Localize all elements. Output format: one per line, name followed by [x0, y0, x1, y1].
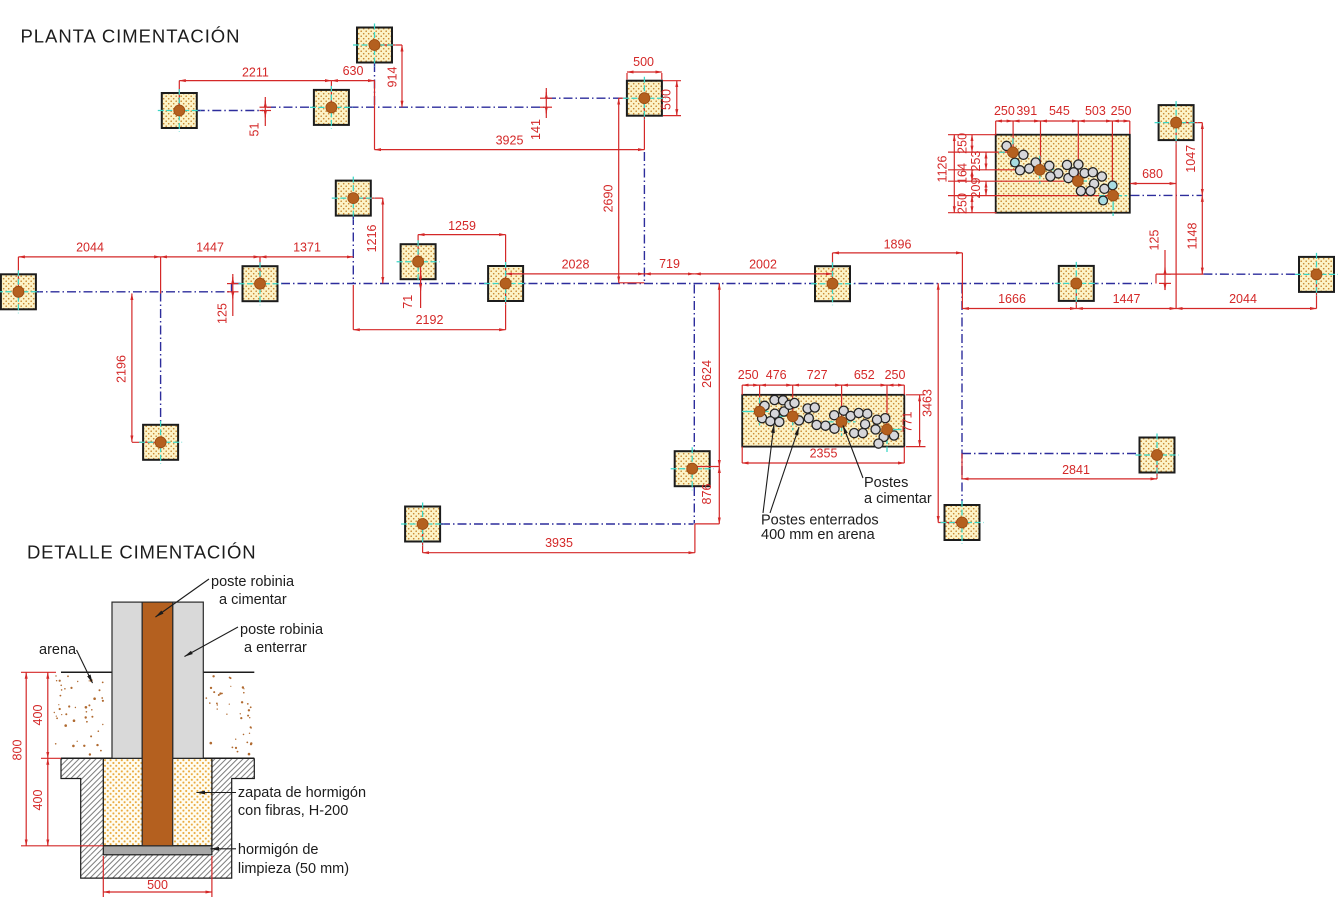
svg-text:250: 250: [955, 133, 969, 154]
svg-text:2211: 2211: [242, 66, 269, 80]
svg-text:1047: 1047: [1184, 145, 1198, 173]
svg-text:1148: 1148: [1185, 223, 1199, 250]
svg-text:3463: 3463: [920, 389, 934, 417]
svg-text:391: 391: [1016, 104, 1037, 118]
svg-text:2192: 2192: [416, 313, 444, 327]
svg-text:400: 400: [31, 705, 45, 726]
svg-text:400 mm en arena: 400 mm en arena: [761, 527, 876, 543]
svg-text:1447: 1447: [196, 240, 224, 254]
svg-text:arena: arena: [39, 642, 77, 658]
svg-text:2355: 2355: [810, 447, 838, 461]
svg-text:Postes: Postes: [864, 475, 908, 491]
svg-text:652: 652: [854, 368, 875, 382]
svg-text:zapata de hormigón: zapata de hormigón: [238, 785, 366, 801]
svg-text:1259: 1259: [448, 219, 476, 233]
svg-text:719: 719: [659, 257, 680, 271]
svg-text:2841: 2841: [1062, 463, 1090, 477]
svg-text:con fibras, H-200: con fibras, H-200: [238, 803, 348, 819]
svg-text:680: 680: [1142, 167, 1163, 181]
svg-text:2690: 2690: [602, 185, 616, 213]
svg-text:500: 500: [660, 89, 674, 110]
svg-text:PLANTA CIMENTACIÓN: PLANTA CIMENTACIÓN: [21, 25, 241, 46]
svg-text:2044: 2044: [76, 240, 104, 254]
svg-text:800: 800: [11, 740, 25, 761]
svg-text:2624: 2624: [700, 360, 714, 388]
svg-text:a cimentar: a cimentar: [864, 491, 932, 507]
svg-text:3925: 3925: [496, 134, 524, 148]
svg-text:250: 250: [1111, 104, 1132, 118]
svg-text:2044: 2044: [1229, 292, 1257, 306]
svg-text:400: 400: [31, 790, 45, 811]
svg-text:503: 503: [1085, 104, 1106, 118]
svg-text:500: 500: [147, 878, 168, 892]
svg-text:727: 727: [807, 368, 828, 382]
svg-text:poste robinia: poste robinia: [240, 622, 324, 638]
svg-text:limpieza (50 mm): limpieza (50 mm): [238, 861, 349, 877]
svg-text:1371: 1371: [293, 240, 321, 254]
svg-text:3935: 3935: [545, 536, 573, 550]
svg-text:253: 253: [969, 151, 983, 172]
svg-text:hormigón de: hormigón de: [238, 842, 319, 858]
svg-text:71: 71: [401, 295, 415, 309]
svg-text:a cimentar: a cimentar: [219, 592, 287, 608]
svg-text:1896: 1896: [884, 237, 912, 251]
svg-text:545: 545: [1049, 104, 1070, 118]
svg-text:2002: 2002: [749, 258, 777, 272]
svg-text:2196: 2196: [114, 355, 128, 383]
svg-text:poste robinia: poste robinia: [211, 574, 295, 590]
svg-text:125: 125: [1147, 230, 1161, 251]
svg-text:630: 630: [343, 64, 364, 78]
svg-text:1216: 1216: [365, 224, 379, 252]
svg-text:476: 476: [766, 368, 787, 382]
svg-text:914: 914: [386, 67, 400, 88]
svg-text:771: 771: [900, 412, 914, 433]
svg-text:250: 250: [885, 368, 906, 382]
svg-text:141: 141: [529, 119, 543, 140]
svg-text:DETALLE CIMENTACIÓN: DETALLE CIMENTACIÓN: [27, 542, 256, 563]
svg-text:125: 125: [215, 303, 229, 324]
svg-text:500: 500: [633, 55, 654, 69]
svg-text:250: 250: [994, 104, 1015, 118]
svg-text:1126: 1126: [935, 156, 949, 183]
svg-text:1447: 1447: [1113, 292, 1141, 306]
svg-text:876: 876: [700, 484, 714, 505]
svg-text:250: 250: [738, 368, 759, 382]
svg-text:a enterrar: a enterrar: [244, 640, 307, 656]
svg-text:2028: 2028: [562, 258, 590, 272]
svg-text:51: 51: [248, 123, 262, 137]
svg-text:1666: 1666: [998, 292, 1026, 306]
